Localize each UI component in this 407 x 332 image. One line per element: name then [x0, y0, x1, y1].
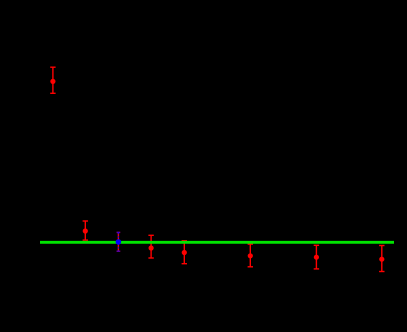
data point P4 (red, x=151.1 y=248.0) [148, 235, 153, 258]
fit line (green horizontal) [40, 241, 394, 244]
data point P7 (red, x=316.4 y=257.2) [314, 245, 319, 269]
data point P3 (blue, x=118.4 y=241.9, dashed error bar, purple caps) [116, 232, 122, 251]
data point P2 (red, x=85.3 y=231.0) [83, 221, 88, 240]
data point P5 (red, x=184.3 y=252.5) [182, 241, 187, 264]
data point P8 (red, x=381.8 y=259.2) [379, 246, 384, 272]
data point P6 (red, x=250.3 y=255.8) [248, 244, 253, 267]
data point P1 (red, x=52.9 y=81.4) [50, 67, 55, 93]
